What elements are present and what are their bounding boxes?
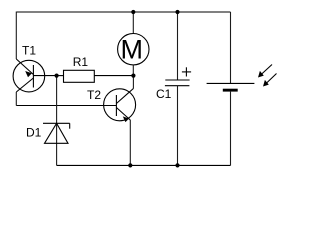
wire node to D1 and bottom: [56, 76, 58, 166]
svg-text:R1: R1: [73, 55, 89, 69]
wire T1 base to node: [33, 75, 56, 77]
node T1 base / R1 / D1: [55, 74, 59, 78]
wire top rail: [16, 11, 230, 13]
transistor T1: [13, 59, 45, 106]
svg-text:D1: D1: [26, 125, 42, 139]
light arrow 2: [265, 74, 277, 86]
capacitor C1: [165, 12, 191, 165]
node dots: [55, 10, 180, 168]
diode D1 (zener): [43, 123, 70, 143]
node R1 / motor / T2 collector: [131, 74, 135, 78]
svg-text:T1: T1: [22, 43, 36, 57]
transistor T2: [104, 76, 136, 166]
motor M: [118, 12, 149, 76]
svg-text:C1: C1: [156, 87, 172, 101]
solar cell B1: [207, 12, 277, 165]
node T2 emitter bottom: [128, 163, 132, 167]
node C1 bottom: [175, 163, 179, 167]
resistor R1: [57, 70, 134, 82]
wire T1 collector to T2 base: [16, 105, 116, 107]
node motor top: [131, 10, 135, 14]
svg-text:T2: T2: [87, 88, 101, 102]
node C1 top: [175, 10, 179, 14]
wire bottom rail: [57, 164, 231, 166]
wire left rail: [15, 12, 17, 60]
light arrow 1: [260, 65, 273, 77]
svg-text:M: M: [121, 35, 144, 65]
